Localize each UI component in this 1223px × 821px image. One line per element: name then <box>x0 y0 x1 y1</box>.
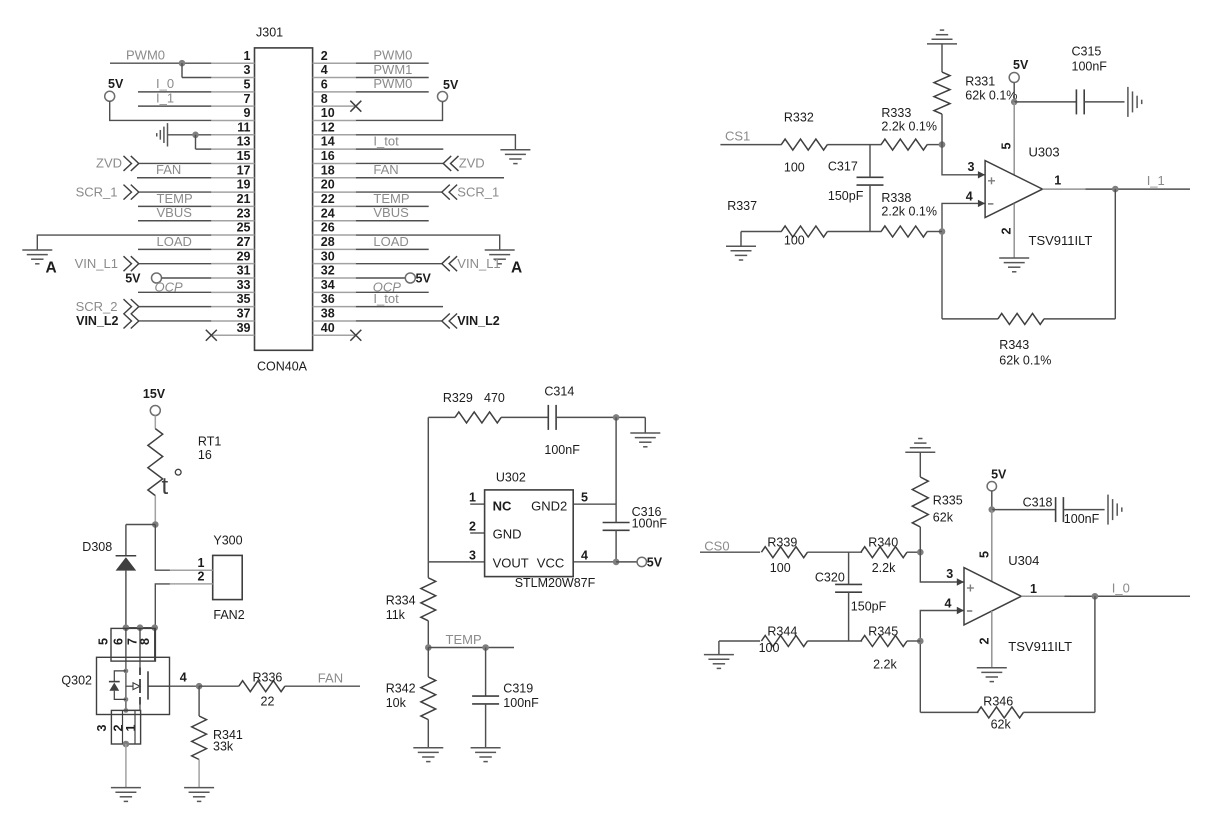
resistor R341 (vertical) <box>192 716 207 759</box>
opamp U303 pin3 arrowhead <box>978 171 985 178</box>
resistor R340 <box>861 547 907 558</box>
ground inverted above R335 <box>905 439 935 453</box>
pin 20 stub <box>313 191 356 193</box>
wire pin11 <box>168 134 212 136</box>
svg-text:3: 3 <box>469 548 476 562</box>
svg-text:SCR_1: SCR_1 <box>457 184 499 199</box>
svg-text:5: 5 <box>978 551 992 558</box>
svg-text:15: 15 <box>237 149 251 163</box>
op-amp U304 minus sign <box>967 610 972 612</box>
ground A left <box>22 250 52 264</box>
svg-text:10k: 10k <box>386 696 407 710</box>
pin 4 stub <box>313 77 356 79</box>
svg-text:28: 28 <box>321 235 335 249</box>
svg-text:A: A <box>46 259 57 276</box>
zener diode inside Q302 <box>114 671 126 681</box>
svg-text:22: 22 <box>261 695 275 709</box>
svg-text:5V: 5V <box>1013 58 1029 72</box>
svg-text:SCR_2: SCR_2 <box>76 299 118 314</box>
wire R335 to node <box>919 527 921 552</box>
port SCR_2 chevron left <box>124 299 139 314</box>
svg-text:R338: R338 <box>881 191 911 205</box>
resistor R346 <box>977 707 1023 718</box>
wire TEMP <box>428 647 514 649</box>
pin 22 stub <box>313 205 356 207</box>
power 5V terminal circle U303 <box>1009 73 1019 83</box>
wire R337 to R338 <box>827 231 881 233</box>
junction dot zener bottom <box>124 697 129 702</box>
wire pin29 <box>139 263 212 265</box>
svg-text:TEMP: TEMP <box>157 191 193 206</box>
svg-text:2: 2 <box>469 519 476 533</box>
capacitor C317 <box>857 176 884 178</box>
pin 32 stub <box>313 277 356 279</box>
pin 39 stub <box>211 334 254 336</box>
wire TEMP node to R342 <box>427 648 429 677</box>
svg-text:5V: 5V <box>443 78 459 92</box>
mosfet channel inside Q302 <box>139 668 141 705</box>
wire R345 to node <box>907 640 920 642</box>
Y300 pin1 stub <box>170 569 213 571</box>
pin 9 stub <box>211 119 254 121</box>
wire pin15 <box>139 162 212 164</box>
pin 27 stub <box>211 248 254 250</box>
wire pin25 to ground A <box>37 235 211 250</box>
svg-text:20: 20 <box>321 178 335 192</box>
svg-text:4: 4 <box>945 597 952 611</box>
IC U302 body <box>485 490 574 577</box>
svg-text:25: 25 <box>237 221 251 235</box>
wire R342 to ground <box>427 720 429 748</box>
svg-text:100: 100 <box>784 160 805 174</box>
svg-text:1: 1 <box>469 491 476 505</box>
wire pin35 <box>139 306 212 308</box>
svg-text:8: 8 <box>321 92 328 106</box>
junction dot 5V node U304 <box>989 506 996 513</box>
wire CS1 to R332 <box>720 144 781 146</box>
transistor Q302 body box <box>97 657 170 714</box>
port VIN_L1 chevron right <box>442 256 457 271</box>
opamp U303 pin4 arrowhead <box>978 200 985 207</box>
svg-text:17: 17 <box>237 163 251 177</box>
ground inverted above R331 <box>927 30 957 44</box>
ground pin12 right <box>500 150 530 164</box>
mosfet gate bar inside Q302 <box>147 671 149 699</box>
ground symbol left (pin11) <box>157 123 168 146</box>
port VIN_L2 chevron left <box>124 313 139 328</box>
svg-text:C315: C315 <box>1072 45 1102 59</box>
power 5V terminal circle U302 <box>637 557 646 566</box>
ground sideways right of C315 <box>1128 87 1142 117</box>
Q302 gate output wire pin4 <box>148 685 170 687</box>
svg-text:1: 1 <box>198 556 205 570</box>
wire pin4 to node <box>170 685 200 687</box>
svg-text:39: 39 <box>237 321 251 335</box>
svg-text:26: 26 <box>321 221 335 235</box>
svg-text:3: 3 <box>968 160 975 174</box>
U302 pin2 stub <box>470 532 484 534</box>
svg-text:100nF: 100nF <box>632 517 668 531</box>
wire CS0 to R339 <box>700 551 760 553</box>
wire pin27 <box>138 248 211 250</box>
Q302 pin7 stub <box>139 628 141 661</box>
junction dot R338 node <box>939 228 946 235</box>
svg-text:15V: 15V <box>143 387 166 401</box>
opamp U304 pin5 wire <box>991 510 993 582</box>
svg-text:100nF: 100nF <box>503 696 539 710</box>
svg-text:R345: R345 <box>868 624 898 638</box>
wire R344 to R345 <box>807 640 862 642</box>
wire node to R341 <box>198 686 200 716</box>
svg-text:SCR_1: SCR_1 <box>76 184 118 199</box>
svg-text:19: 19 <box>237 178 251 192</box>
pin 36 stub <box>313 306 356 308</box>
resistor R336 <box>239 681 285 692</box>
ground left of R337 <box>726 246 756 260</box>
resistor R345 <box>861 636 907 647</box>
wire ground stem top right <box>644 417 646 433</box>
wire feedback horizontal left <box>942 318 998 320</box>
mosfet substrate arrow <box>126 685 133 687</box>
ground left of R344 <box>704 655 734 669</box>
svg-text:Y300: Y300 <box>213 533 242 547</box>
svg-text:100: 100 <box>770 561 791 575</box>
junction dot R340/R335 <box>917 549 924 556</box>
svg-text:2: 2 <box>978 637 992 644</box>
wire feedback to -input (pin4) <box>920 611 964 713</box>
capacitor C315 <box>1075 89 1077 114</box>
svg-text:5V: 5V <box>991 468 1007 482</box>
svg-text:32: 32 <box>321 264 335 278</box>
wire C316 to pin4 <box>615 530 617 562</box>
op-amp U304 triangle <box>964 568 1021 625</box>
svg-text:TSV911ILT: TSV911ILT <box>1008 639 1072 654</box>
svg-text:5V: 5V <box>108 77 124 91</box>
resistor R335 (vertical) <box>912 477 928 527</box>
wire output I_1 <box>1086 188 1191 190</box>
wire feedback vertical U304 <box>1094 596 1096 712</box>
wire pin32 <box>356 277 406 279</box>
svg-text:13: 13 <box>237 135 251 149</box>
svg-text:Q302: Q302 <box>61 673 92 687</box>
wire top to R329 <box>428 416 455 418</box>
svg-text:ZVD: ZVD <box>459 156 485 171</box>
resistor R337 ground wire <box>741 231 782 233</box>
junction dot C314 node <box>613 414 620 421</box>
ground below C319 <box>471 748 501 762</box>
svg-text:RT1: RT1 <box>198 434 221 448</box>
wire 5V to node U304 <box>991 491 993 510</box>
svg-text:R342: R342 <box>386 681 416 695</box>
svg-text:VBUS: VBUS <box>157 205 193 220</box>
svg-text:29: 29 <box>237 249 251 263</box>
svg-text:NC: NC <box>493 498 512 513</box>
wire C318 to ground <box>1063 509 1104 511</box>
svg-text:62k 0.1%: 62k 0.1% <box>965 88 1017 102</box>
svg-text:470: 470 <box>484 391 505 405</box>
wire pin2 <box>356 62 429 64</box>
svg-text:VIN_L1: VIN_L1 <box>457 256 500 271</box>
wire top-left vertical U302 <box>427 417 429 562</box>
resistor R332 <box>781 139 827 150</box>
Q302 pin1/2 stubs <box>122 710 124 744</box>
wire D308 to Q302 <box>125 571 127 628</box>
svg-text:4: 4 <box>180 670 187 684</box>
svg-text:5: 5 <box>244 77 251 91</box>
pin 12 stub <box>313 134 356 136</box>
opamp U304 pin2 wire <box>991 611 993 668</box>
svg-text:16: 16 <box>321 149 335 163</box>
junction dot output U304 <box>1092 593 1099 600</box>
svg-text:3: 3 <box>244 63 251 77</box>
wire node to +input (pin3) <box>942 145 985 175</box>
power 5V terminal circle pin31 <box>152 273 162 283</box>
svg-text:D308: D308 <box>82 540 112 554</box>
pin 16 stub <box>313 162 356 164</box>
U302 pin3 stub <box>470 561 484 563</box>
pin 6 stub <box>313 91 356 93</box>
svg-text:1: 1 <box>244 49 251 63</box>
Q302 pin8 stub <box>154 628 156 661</box>
wire node to C320 <box>848 552 850 584</box>
svg-text:PWM0: PWM0 <box>373 48 412 63</box>
op-amp U303 triangle <box>985 161 1042 218</box>
svg-text:31: 31 <box>237 264 251 278</box>
wire pin10 to 5V <box>356 102 443 121</box>
wire pin37 <box>139 320 212 322</box>
svg-text:VIN_L2: VIN_L2 <box>457 314 499 328</box>
transistor Q302 top pin box <box>111 628 155 661</box>
svg-text:LOAD: LOAD <box>373 234 408 249</box>
wire R340 to node <box>907 551 920 553</box>
svg-text:4: 4 <box>581 548 588 562</box>
wire feedback to -input (pin4) <box>942 203 985 319</box>
wire pin30 <box>356 263 442 265</box>
power 5V terminal circle right <box>438 92 448 102</box>
svg-text:4: 4 <box>966 189 973 203</box>
svg-text:30: 30 <box>321 249 335 263</box>
svg-text:FAN2: FAN2 <box>213 608 244 622</box>
junction dot drain a <box>123 624 130 631</box>
ground sideways right of C318 <box>1108 495 1122 525</box>
wire R333 to node <box>927 144 942 146</box>
wire feedback horizontal U304 <box>920 711 978 713</box>
ground below R341 <box>184 788 214 802</box>
wire left vertical to R334 <box>427 562 429 578</box>
svg-text:VBUS: VBUS <box>373 205 409 220</box>
wire RT1 to junction <box>154 496 156 525</box>
svg-text:FAN: FAN <box>373 162 398 177</box>
wire node down to pin5 <box>615 417 617 504</box>
wire pin23 <box>138 220 211 222</box>
ground below U304 <box>977 668 1007 682</box>
capacitor C318 <box>1055 497 1057 522</box>
junction dot Q302 source pins <box>123 741 130 748</box>
svg-text:100nF: 100nF <box>544 443 580 457</box>
svg-text:C317: C317 <box>828 159 858 173</box>
svg-text:5: 5 <box>97 638 111 645</box>
junction dot FAN node <box>196 683 203 690</box>
wire Q302 to ground <box>125 744 127 788</box>
svg-text:R340: R340 <box>868 536 898 550</box>
wire 15V to RT1 <box>154 416 156 429</box>
wire pin20 <box>356 191 442 193</box>
junction dot R345 node <box>917 638 924 645</box>
wire pin28 <box>356 248 429 250</box>
svg-text:C319: C319 <box>503 681 533 695</box>
opamp U303 output pin1 stub <box>1043 188 1086 190</box>
wire R332 to R333 <box>827 144 881 146</box>
svg-text:3: 3 <box>95 724 109 731</box>
wire pin18 <box>356 177 504 179</box>
Q302 pin6 stub <box>125 628 127 661</box>
opamp U304 output pin1 stub <box>1021 595 1064 597</box>
wire C314 to ground corner <box>556 416 645 418</box>
svg-text:VOUT: VOUT <box>493 555 529 570</box>
wire pin33 <box>138 291 211 293</box>
wire pin21 <box>138 205 211 207</box>
svg-text:7: 7 <box>244 92 251 106</box>
wire R334 to TEMP node <box>427 621 429 648</box>
U302 pin5 stub <box>573 503 616 505</box>
pin 25 stub <box>211 234 254 236</box>
resistor R338 <box>881 226 927 237</box>
wire TEMP node to C319 <box>485 648 487 697</box>
pin 14 stub <box>313 148 356 150</box>
ground below Q302 <box>111 788 141 802</box>
power 5V terminal circle left <box>105 91 115 101</box>
junction dot pin1 <box>179 60 186 67</box>
wire Q302 drain rail <box>126 627 155 629</box>
svg-text:23: 23 <box>237 206 251 220</box>
svg-text:33: 33 <box>237 278 251 292</box>
wire pin12 to ground <box>356 135 516 150</box>
svg-text:C318: C318 <box>1023 496 1053 510</box>
svg-text:TEMP: TEMP <box>446 632 482 647</box>
svg-text:PWM1: PWM1 <box>373 62 412 77</box>
Y300 pin2 stub <box>170 583 213 585</box>
wire ground to R335 <box>919 452 921 477</box>
ground below U303 <box>999 258 1029 272</box>
wire pin5 <box>138 91 211 93</box>
wire pin36 <box>356 306 443 308</box>
pin 7 stub <box>211 105 254 107</box>
U302 pin4 stub <box>573 561 616 563</box>
wire pin24 <box>356 220 429 222</box>
pin 26 stub <box>313 234 356 236</box>
port VIN_L1 chevron left <box>124 256 139 271</box>
wire pin5 to C316 <box>615 504 617 522</box>
wire pin1 PWM0 <box>110 62 211 64</box>
svg-text:4: 4 <box>321 63 328 77</box>
resistor R339 <box>761 547 807 558</box>
wire R341 to ground <box>198 760 200 788</box>
svg-text:37: 37 <box>237 307 251 321</box>
svg-text:J301: J301 <box>256 26 283 40</box>
svg-text:27: 27 <box>237 235 251 249</box>
wire D308 top <box>125 525 127 556</box>
svg-text:R335: R335 <box>933 493 963 507</box>
resistor R343 <box>998 313 1044 324</box>
wire Y300 pin1 to node <box>155 525 170 571</box>
svg-text:R339: R339 <box>767 536 797 550</box>
svg-text:62k 0.1%: 62k 0.1% <box>999 354 1051 368</box>
no-connect X pin39 <box>206 330 217 341</box>
svg-text:22: 22 <box>321 192 335 206</box>
no-connect X pin8 <box>350 101 361 112</box>
svg-text:5: 5 <box>581 491 588 505</box>
pin 33 stub <box>211 291 254 293</box>
wire pin26 to ground A <box>356 235 500 250</box>
svg-text:VIN_L1: VIN_L1 <box>75 256 118 271</box>
svg-text:R344: R344 <box>767 624 797 638</box>
svg-text:11k: 11k <box>386 608 406 622</box>
svg-text:2.2k 0.1%: 2.2k 0.1% <box>881 120 937 134</box>
wire ground stem R337 <box>740 232 742 247</box>
pin 19 stub <box>211 191 254 193</box>
port VIN_L2 chevron right <box>442 313 457 328</box>
port SCR_1 chevron right <box>442 185 457 200</box>
capacitor C316 <box>603 522 630 524</box>
wire pin13 <box>196 148 212 150</box>
pin 5 stub <box>211 91 254 93</box>
svg-text:U303: U303 <box>1029 144 1060 159</box>
svg-text:R329: R329 <box>443 391 473 405</box>
svg-text:6: 6 <box>112 638 126 645</box>
opamp U303 pin5 wire <box>1013 102 1015 175</box>
power 15V terminal circle <box>150 406 160 416</box>
resistor R329 <box>455 412 501 423</box>
svg-text:2.2k 0.1%: 2.2k 0.1% <box>881 205 937 219</box>
svg-text:R343: R343 <box>999 338 1029 352</box>
wire ground stem R344 <box>718 641 720 655</box>
pin 23 stub <box>211 220 254 222</box>
svg-text:I_tot: I_tot <box>373 134 399 149</box>
svg-text:A: A <box>511 259 522 276</box>
port ZVD chevron right <box>443 156 458 171</box>
pin 17 stub <box>211 177 254 179</box>
svg-text:CS1: CS1 <box>725 129 750 144</box>
svg-text:35: 35 <box>237 292 251 306</box>
wire pin31 <box>162 277 212 279</box>
svg-text:150pF: 150pF <box>851 599 887 613</box>
svg-text:18: 18 <box>321 163 335 177</box>
svg-text:VCC: VCC <box>537 555 564 570</box>
wire pin4 to 5V <box>616 561 637 563</box>
svg-text:12: 12 <box>321 120 335 134</box>
Q302 internal drain wires <box>125 661 127 710</box>
svg-text:16: 16 <box>198 448 212 462</box>
junction dot RT1 node <box>152 521 159 528</box>
junction dot drain b <box>137 624 144 631</box>
pin 37 stub <box>211 320 254 322</box>
diode D308 <box>116 555 137 557</box>
wire pin7 <box>138 105 211 107</box>
svg-text:11: 11 <box>237 120 250 134</box>
junction dot zener top <box>124 669 129 674</box>
wire pin1 to pin3 <box>181 63 183 77</box>
wire node to C315 <box>1014 101 1076 103</box>
svg-text:1: 1 <box>1030 582 1037 596</box>
wire pin16 <box>356 162 443 164</box>
pin 15 stub <box>211 162 254 164</box>
svg-text:U304: U304 <box>1008 553 1039 568</box>
svg-text:C314: C314 <box>544 385 574 399</box>
wire R336 to FAN <box>285 685 360 687</box>
junction dot 5V node U303 <box>1011 99 1018 106</box>
wire R331 to node <box>941 114 943 145</box>
svg-text:62k: 62k <box>933 510 954 524</box>
